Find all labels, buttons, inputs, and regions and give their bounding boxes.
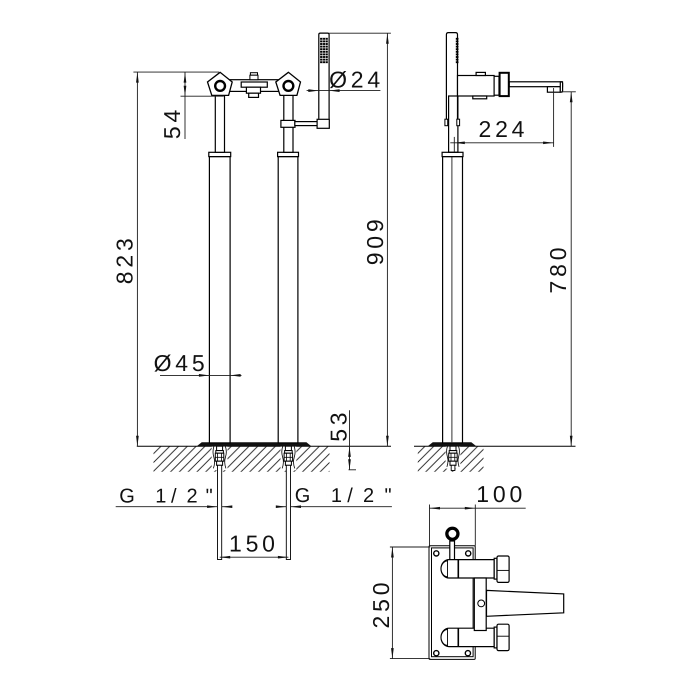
- dim 150 line: [220, 556, 289, 558]
- front view shower arm: [295, 122, 317, 126]
- top view holder stem: [450, 541, 455, 560]
- svg-text:G1/2": G1/2": [295, 485, 392, 507]
- front view body crossbar: [228, 80, 280, 92]
- side view floor hatch: [418, 446, 484, 471]
- svg-text:224: 224: [479, 116, 529, 142]
- front view left handle pentagon: [208, 72, 233, 95]
- front view floor line: [137, 445, 391, 447]
- side view handshower spray edge: [456, 39, 459, 62]
- side view riser pipe: [449, 96, 458, 152]
- side view spout flange: [500, 73, 509, 96]
- side view spout aerator: [547, 87, 560, 93]
- top view upper valve body: [441, 560, 494, 578]
- dim phi45 leader: [160, 374, 242, 376]
- front view left riser pipe: [215, 95, 224, 152]
- front view handshower spray face: [320, 38, 328, 64]
- svg-text:54: 54: [159, 106, 185, 139]
- front view left handle circle: [215, 81, 225, 91]
- front view right supply fitting G1/2: [284, 446, 293, 465]
- side view supply fitting: [449, 446, 458, 470]
- side view spout: [509, 82, 562, 87]
- dim G12 left leader: [116, 506, 218, 508]
- svg-text:Ø45: Ø45: [154, 350, 209, 376]
- front view left supply pipe: [218, 465, 222, 559]
- dimension texts: [111, 66, 571, 628]
- top view screw holes: [434, 551, 471, 656]
- front view right riser pipe: [284, 95, 293, 152]
- front view floor hatch: [154, 446, 330, 471]
- front view right supply pipe: [286, 465, 290, 559]
- top view spout: [487, 590, 564, 616]
- top view base plate inner edge: [432, 548, 474, 657]
- front view handshower bar: [319, 33, 329, 119]
- svg-text:53: 53: [326, 409, 352, 442]
- svg-text:823: 823: [111, 234, 137, 284]
- side view handshower handle: [446, 33, 457, 126]
- front view right column collar: [278, 152, 299, 156]
- front view left column tube: [209, 157, 230, 443]
- front view diverter plate: [241, 82, 267, 87]
- side view floor line: [414, 445, 576, 447]
- front view base plate: [198, 443, 310, 446]
- svg-text:909: 909: [362, 216, 388, 266]
- dim 780 line: [570, 92, 572, 446]
- side view column collar: [442, 152, 463, 156]
- dimension arrows: [136, 33, 573, 658]
- svg-text:G1/2": G1/2": [119, 485, 213, 507]
- dim 909 line: [386, 33, 388, 446]
- dimension lines: [116, 33, 576, 658]
- side view valve top knob: [476, 72, 485, 75]
- front view left supply hole gap: [212, 446, 228, 470]
- side view valve body: [458, 76, 495, 97]
- top view central body: [474, 578, 486, 631]
- svg-text:780: 780: [545, 244, 571, 294]
- front view left column collar: [209, 152, 231, 156]
- top view lower valve handle: [494, 624, 509, 650]
- front view diverter lower knob: [246, 87, 260, 97]
- dim 224 line: [450, 142, 553, 144]
- svg-text:150: 150: [229, 531, 279, 557]
- front view diverter top knob: [250, 73, 258, 80]
- front view right handle pentagon: [276, 72, 301, 95]
- dim 54 line: [184, 72, 186, 139]
- top view lower valve body: [441, 628, 494, 646]
- side view base plate: [429, 443, 475, 446]
- front view right column tube: [278, 157, 298, 443]
- svg-text:100: 100: [476, 481, 526, 507]
- svg-text:250: 250: [368, 579, 394, 629]
- front view right supply hole gap: [281, 446, 297, 470]
- front view right handle circle: [284, 81, 294, 91]
- dim 53 line: [349, 410, 351, 470]
- front view left supply fitting G1/2: [215, 446, 224, 465]
- top view base plate outer edge: [429, 546, 475, 660]
- top view holder ring: [447, 528, 459, 540]
- dim G12 right leader: [278, 506, 287, 508]
- dim 250 line: [391, 547, 393, 659]
- side view column tube: [443, 157, 463, 443]
- side view holder clips: [445, 119, 460, 126]
- front view shower arm collar: [281, 120, 295, 127]
- top view central body screw: [478, 600, 485, 607]
- side view supply hole gap: [446, 446, 461, 468]
- svg-text:Ø24: Ø24: [329, 66, 384, 92]
- dim 100 line: [429, 507, 525, 509]
- side view spout tip cap: [560, 82, 562, 92]
- dim 823 line: [136, 72, 138, 446]
- dim phi24 leader: [307, 90, 381, 92]
- side view valve bottom knob: [473, 96, 487, 99]
- top view upper valve handle: [494, 556, 509, 582]
- front view handshower holder: [317, 119, 329, 128]
- side view spout neck: [494, 76, 499, 95]
